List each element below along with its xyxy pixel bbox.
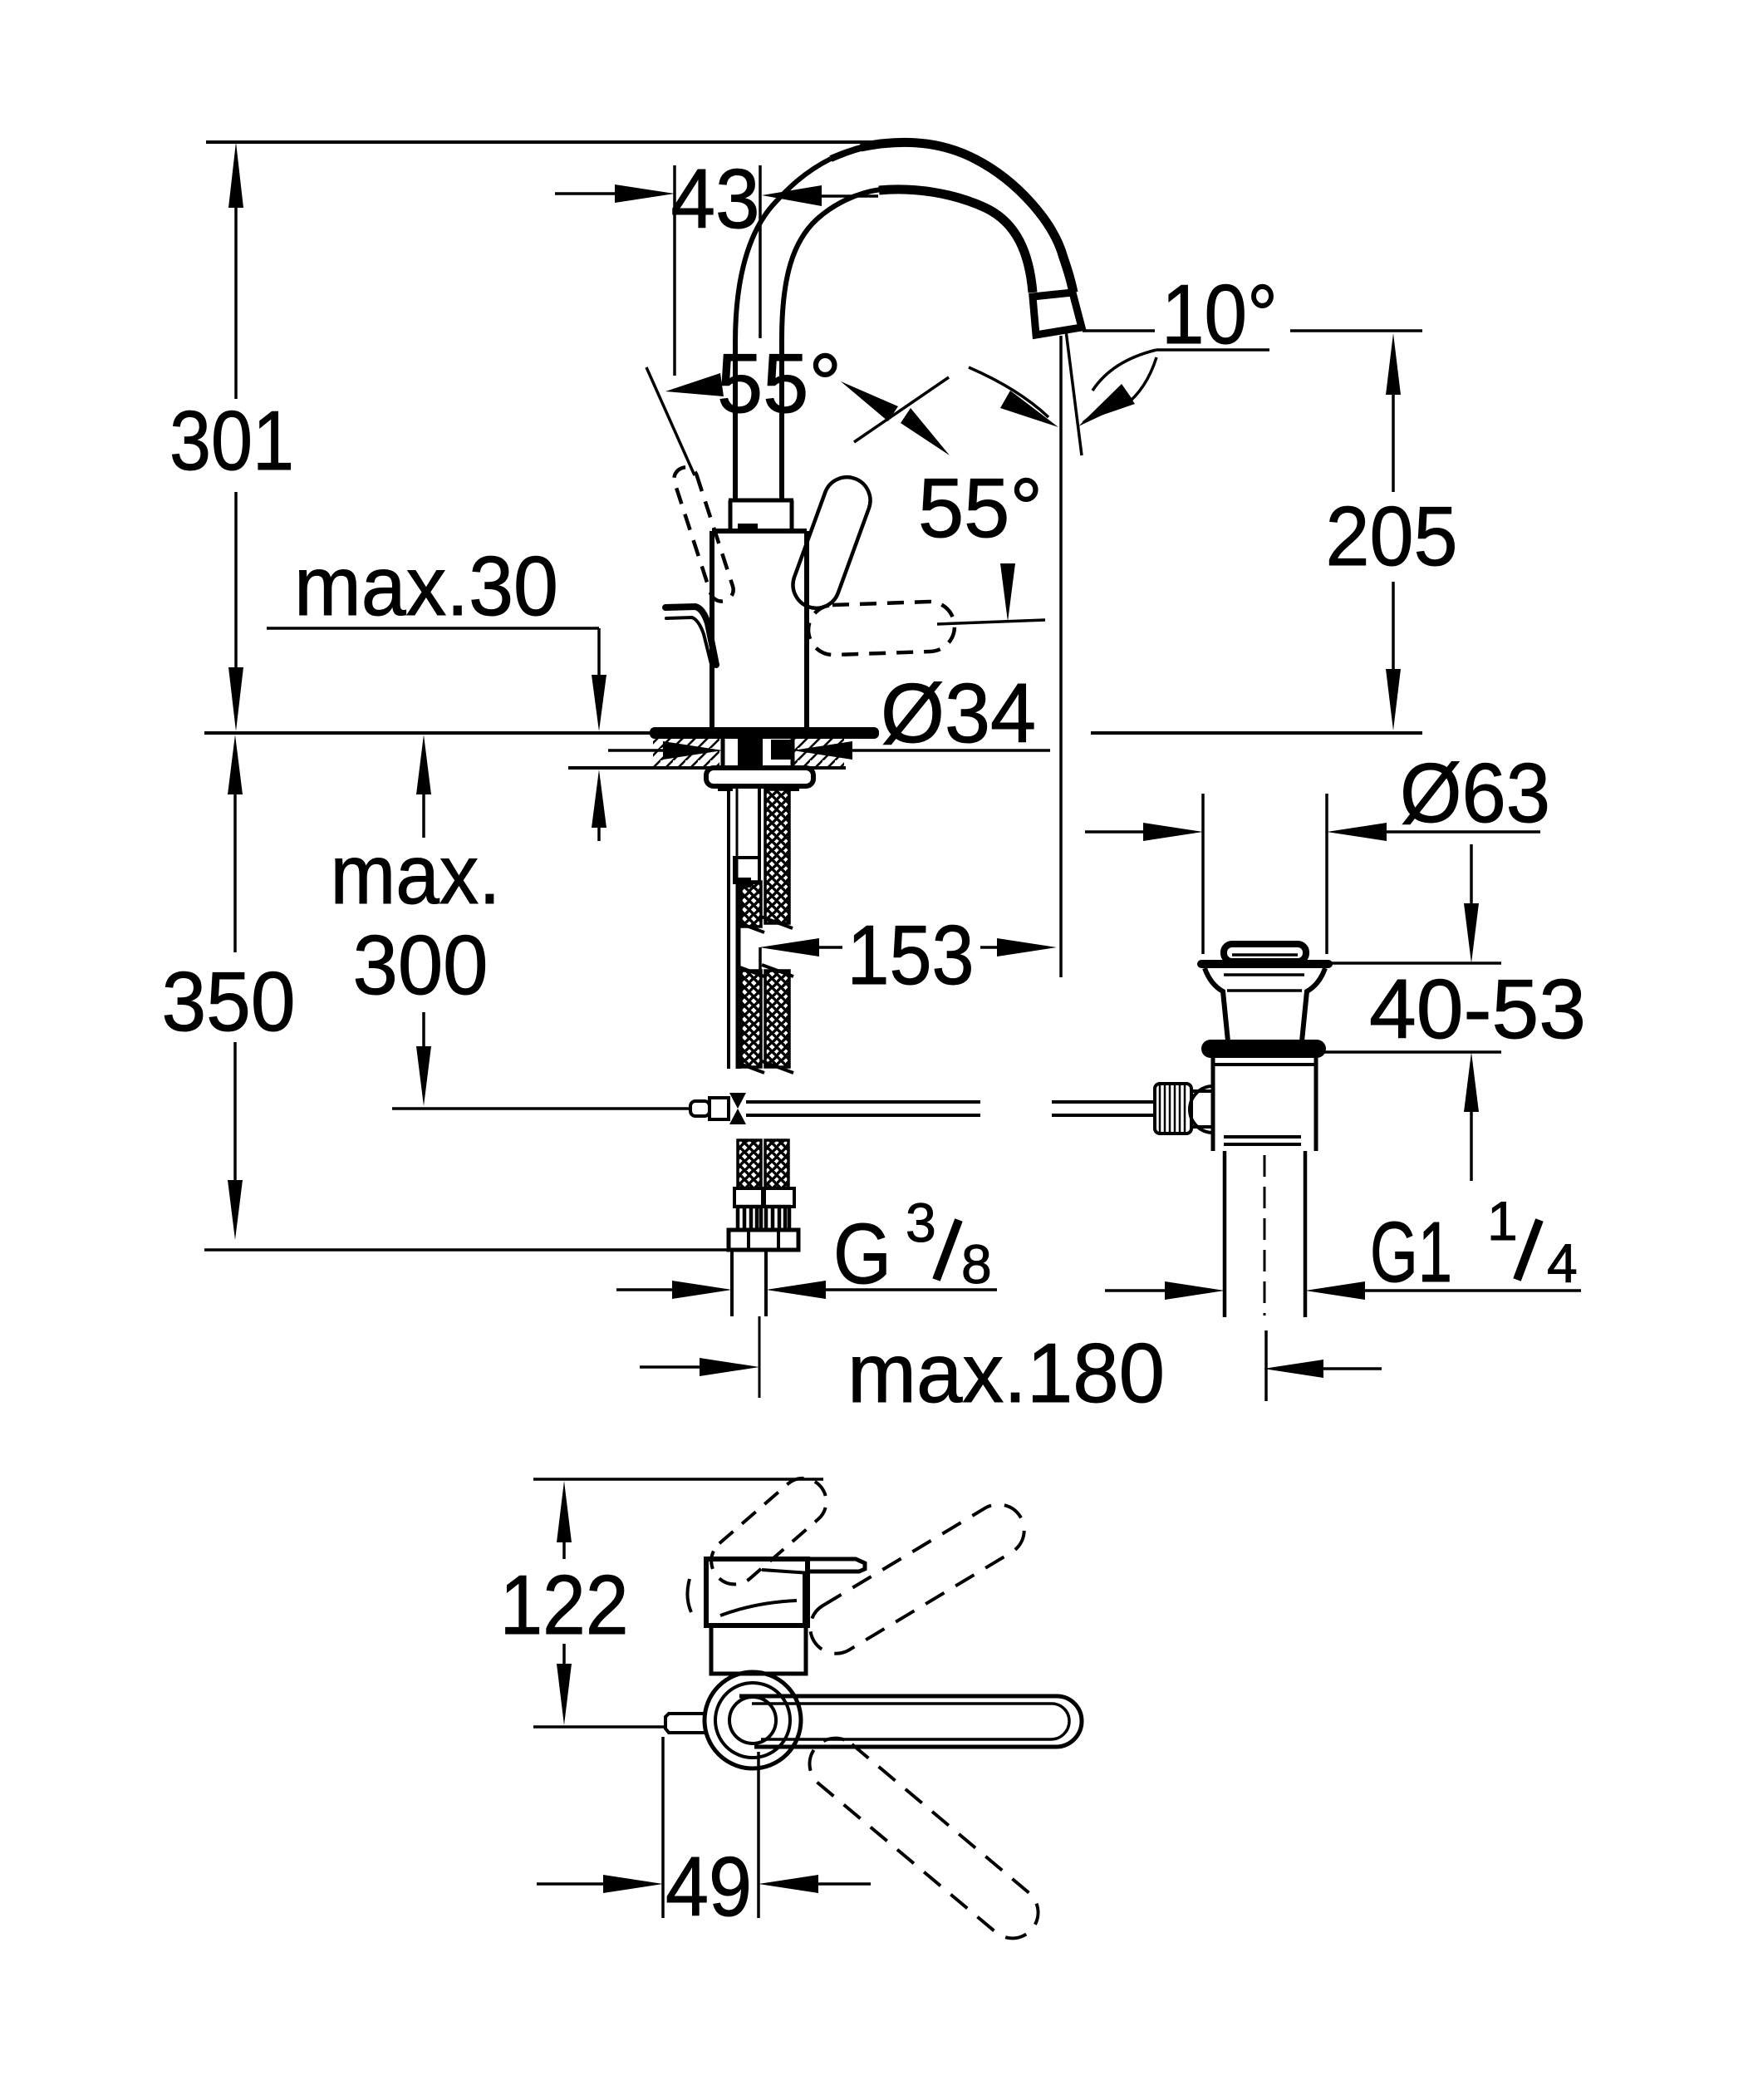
drain push cap bbox=[1224, 944, 1306, 961]
supply pipe below nut bbox=[730, 1250, 734, 1316]
svg-text:153: 153 bbox=[847, 909, 975, 1002]
braided hose left upper bbox=[741, 882, 761, 927]
faucet body collar bbox=[729, 500, 733, 531]
svg-text:43: 43 bbox=[671, 153, 760, 246]
svg-text:10°: 10° bbox=[1161, 268, 1278, 361]
top view freehand curls bbox=[720, 1601, 797, 1616]
Ø63 extension lines bbox=[1201, 794, 1205, 954]
faucet body bbox=[712, 529, 807, 534]
top reference line (spout apex level) bbox=[206, 140, 893, 144]
55deg right wedge arrows (bowtie) bbox=[841, 381, 898, 421]
spout riser pipe right edge bbox=[782, 189, 881, 502]
drain flange trumpet sides (narrowing down) bbox=[1205, 968, 1228, 1041]
countertop hatch left bbox=[653, 736, 719, 766]
swivel arc left with arrow at tip line bbox=[969, 367, 1048, 417]
svg-text:49: 49 bbox=[665, 1841, 752, 1934]
dimension Ø63 bbox=[1085, 830, 1145, 834]
faucet base flange (thick bar) bbox=[650, 727, 879, 739]
ferrules bbox=[734, 1188, 763, 1207]
connection nut bbox=[729, 1230, 798, 1250]
dimension max 300 bbox=[416, 735, 431, 794]
10deg reference line at tip level bbox=[1083, 329, 1155, 332]
dimension 350 bbox=[228, 735, 243, 794]
pull-rod guide tube bbox=[727, 788, 730, 1069]
dimension 43 extension lines bbox=[673, 165, 676, 376]
top view lever capsule bbox=[739, 1696, 1082, 1747]
svg-text:G: G bbox=[833, 1206, 891, 1301]
svg-text:350: 350 bbox=[162, 956, 296, 1049]
countertop top line bbox=[204, 731, 650, 735]
pull rod horizontal bbox=[392, 1107, 690, 1110]
dashed handle position right-horizontal bbox=[808, 601, 955, 656]
svg-text:300: 300 bbox=[353, 919, 489, 1012]
55deg left leg line bbox=[646, 367, 695, 475]
top view dashed capsule diagonal lower-right bbox=[799, 1728, 1048, 1949]
dimension 43 arrows bbox=[555, 184, 878, 206]
svg-text:Ø63: Ø63 bbox=[1400, 747, 1550, 840]
ribbed connectors bbox=[738, 1207, 789, 1230]
dimension 205 bbox=[1386, 333, 1401, 730]
dimension 40-53 bbox=[1328, 961, 1501, 965]
drain flange top (wide) bbox=[1201, 960, 1328, 968]
dimension 301 vertical line with arrows bbox=[228, 142, 243, 731]
drain body grooves bbox=[1224, 1135, 1301, 1139]
svg-text:40-53: 40-53 bbox=[1369, 963, 1586, 1056]
countertop bottom line bbox=[568, 766, 721, 770]
spout riser pipe left edge bbox=[735, 159, 831, 502]
svg-text:max.: max. bbox=[331, 829, 501, 922]
top view reference line (122 top) bbox=[533, 1478, 823, 1481]
svg-text:G1: G1 bbox=[1370, 1204, 1452, 1300]
55deg right leg line bbox=[854, 377, 949, 442]
dimension G 3/8 bbox=[616, 1288, 675, 1291]
svg-text:4: 4 bbox=[1547, 1232, 1578, 1294]
supply hose lower ends bbox=[738, 1140, 761, 1188]
top view left tab bbox=[665, 1714, 706, 1733]
svg-text:55°: 55° bbox=[717, 337, 842, 430]
drain O-ring (black band) bbox=[1201, 1040, 1326, 1058]
countertop hatch right bbox=[794, 736, 844, 766]
dashed handle position upper-left bbox=[671, 465, 737, 604]
svg-text:max.30: max.30 bbox=[294, 540, 558, 633]
drain tailpipe bbox=[1223, 1151, 1227, 1317]
55deg left wedge arrow bbox=[665, 373, 724, 396]
shank through countertop bbox=[721, 733, 725, 768]
350 bottom reference line bbox=[204, 1248, 729, 1252]
swivel arc right with arrow at tip line bbox=[1125, 357, 1156, 406]
hose break cut marks bbox=[738, 917, 793, 1073]
knurled adjuster knob bbox=[1155, 1084, 1191, 1134]
svg-text:3: 3 bbox=[906, 1192, 936, 1253]
svg-text:8: 8 bbox=[961, 1233, 992, 1295]
dimension 153 bbox=[759, 938, 819, 957]
svg-text:122: 122 bbox=[500, 1559, 629, 1652]
spout outlet axis line (10 deg) bbox=[1066, 331, 1082, 455]
dimension max.180 bbox=[640, 1365, 701, 1369]
braided hose right upper bbox=[765, 789, 789, 923]
10deg leader underline and curve with arrow bbox=[1156, 348, 1269, 352]
svg-text:max.180: max.180 bbox=[847, 1327, 1165, 1420]
top view body lower section bbox=[711, 1625, 806, 1674]
braided hoses lower pair bbox=[741, 971, 761, 1067]
rod housing tube bbox=[758, 788, 761, 858]
svg-text:55°: 55° bbox=[918, 462, 1043, 555]
122 bottom reference line bbox=[533, 1725, 666, 1729]
top view body square bbox=[706, 1559, 808, 1625]
top view dashed capsule up (lever raised) bbox=[702, 1468, 836, 1594]
dimension 49 bbox=[661, 1737, 665, 1918]
svg-text:Ø34: Ø34 bbox=[881, 667, 1036, 760]
aerator at spout tip bbox=[1033, 293, 1082, 335]
top view lever plate bbox=[710, 1559, 865, 1571]
dimension 122 bbox=[557, 1481, 572, 1542]
svg-text:301: 301 bbox=[169, 395, 294, 488]
mounting washer under counter bbox=[706, 768, 813, 786]
drain body bbox=[1211, 1058, 1215, 1151]
spout outer arc bbox=[861, 142, 1073, 293]
solid handle position upper-right bbox=[787, 470, 877, 614]
svg-text:1: 1 bbox=[1487, 1190, 1518, 1252]
55deg lower leader: line from dashed handle bbox=[937, 620, 1045, 624]
vertical extension line from spout tip down to 153 dim bbox=[1059, 336, 1063, 977]
dimension G1 1/4 bbox=[1105, 1289, 1166, 1292]
handle lever (solid, pointing left) bbox=[665, 607, 716, 665]
top view pivot rings bbox=[705, 1672, 801, 1768]
top view dashed capsule diagonal upper-right bbox=[801, 1495, 1034, 1664]
svg-text:205: 205 bbox=[1326, 490, 1458, 583]
spout inner arc bbox=[879, 189, 1033, 293]
